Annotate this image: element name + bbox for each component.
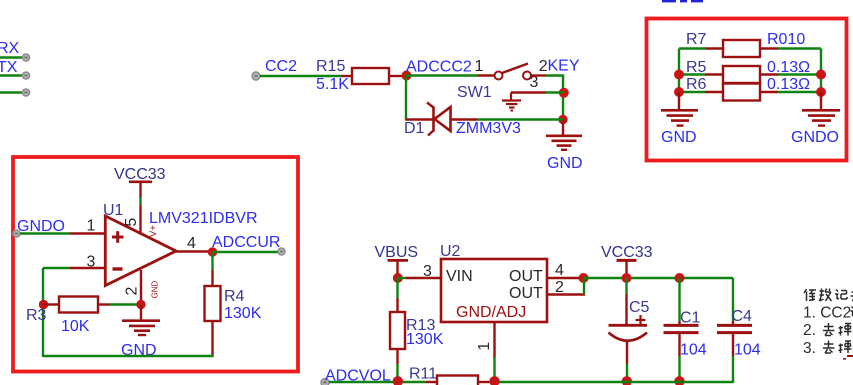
op-amp U1 pin 2 <box>140 270 142 305</box>
svg-text:GND: GND <box>547 155 583 172</box>
svg-text:R010: R010 <box>767 31 805 48</box>
wire contact2 to KEY node <box>531 74 546 76</box>
junction ADCCUR <box>208 247 218 257</box>
junction C5 bottom <box>622 376 632 385</box>
capacitor C1 plates <box>664 324 699 327</box>
resistor R13 <box>396 278 398 298</box>
svg-text:R6: R6 <box>686 76 707 93</box>
pin third <box>22 89 29 96</box>
junction R13 bottom <box>393 376 403 385</box>
wire KEY node down <box>562 76 564 121</box>
wire CC2 to R15 <box>260 75 341 77</box>
resistor R15 <box>341 75 352 77</box>
wire VCC33 to U1 <box>139 197 141 205</box>
junction pin3 node <box>559 88 569 98</box>
wire bottom loop <box>43 355 213 357</box>
resistor R11 <box>426 381 437 383</box>
svg-text:1: 1 <box>475 58 484 75</box>
svg-text:GNDO: GNDO <box>791 129 839 146</box>
svg-text:130K: 130K <box>406 331 444 348</box>
wire third <box>0 91 23 93</box>
svg-text:104: 104 <box>734 342 761 359</box>
junction C1 bottom <box>674 376 684 385</box>
capacitor C5 lead top <box>625 278 627 294</box>
junction pin2 <box>136 300 145 309</box>
svg-text:TX: TX <box>0 59 18 76</box>
ground GND <box>546 135 582 138</box>
svg-text:KEY: KEY <box>548 58 580 75</box>
svg-text:GND: GND <box>661 129 697 146</box>
wire VBUS to VIN <box>398 277 407 279</box>
junction zener node <box>558 115 567 124</box>
svg-text:C4: C4 <box>732 308 753 325</box>
op-amp minus sign <box>113 267 123 270</box>
capacitor C4 plates <box>717 324 752 327</box>
note line3 char 去 <box>823 323 835 336</box>
svg-text:0.13Ω: 0.13Ω <box>767 76 810 93</box>
svg-text:2: 2 <box>124 287 141 296</box>
svg-text:VIN: VIN <box>446 268 473 285</box>
wire C4 branch top <box>732 278 734 321</box>
svg-text:R11: R11 <box>409 366 437 383</box>
svg-text:D1: D1 <box>404 120 425 137</box>
wire C4 branch bottom <box>732 356 734 383</box>
svg-text:2: 2 <box>539 58 548 75</box>
pin GNDO <box>13 230 20 237</box>
svg-text:5: 5 <box>123 218 140 227</box>
resistor R4 <box>205 286 221 321</box>
junction VBUS <box>393 273 403 283</box>
wire ADCCC2 down to D1 <box>405 76 407 121</box>
capacitor C1 lead bottom <box>678 333 680 356</box>
capacitor C5 top plate <box>609 324 648 327</box>
note line2 char clipped <box>851 307 853 317</box>
note line1 char clipped <box>851 289 853 302</box>
note line1 char 记 <box>835 290 847 300</box>
ground GND <box>140 305 142 320</box>
wire OUT2 up <box>583 278 585 295</box>
wire OUT2 <box>547 293 585 295</box>
pin RX <box>22 54 29 61</box>
svg-text:5.1K: 5.1K <box>316 76 349 93</box>
junction right R6 <box>816 87 826 97</box>
junction OUT <box>579 273 589 283</box>
junction R3 left <box>39 300 48 309</box>
svg-text:130K: 130K <box>224 305 262 322</box>
svg-text:2.: 2. <box>803 322 816 339</box>
capacitor C4 lead top <box>732 321 734 325</box>
note line1 char 改 <box>820 289 832 302</box>
op-amp U1 pin 5 <box>139 205 141 234</box>
wire OUT4 <box>547 277 582 279</box>
pin ADCVOL <box>321 379 329 385</box>
svg-text:OUT: OUT <box>509 285 543 302</box>
wire junction to SW1 <box>406 74 478 76</box>
capacitor C5 curved plate <box>609 333 648 341</box>
wire RX <box>0 56 23 58</box>
svg-text:SW1: SW1 <box>457 84 492 101</box>
svg-text:RX: RX <box>0 40 20 57</box>
wire left bus <box>678 49 680 94</box>
regulator U2 pin 1 <box>493 322 495 357</box>
pin ADCCUR <box>278 248 285 255</box>
svg-text:U2: U2 <box>440 243 461 260</box>
svg-text:VCC33: VCC33 <box>601 244 653 261</box>
svg-text:LMV321IDBVR: LMV321IDBVR <box>149 210 258 227</box>
diode D1 zener bar <box>432 107 435 132</box>
wire left vertical <box>42 268 44 357</box>
svg-text:ADCCUR: ADCCUR <box>212 234 280 251</box>
note line4 char 去 <box>823 341 835 354</box>
wire bottom rail left <box>329 381 426 383</box>
ground GND left <box>678 92 680 109</box>
red highlight box left <box>13 157 298 372</box>
junction U2 pin1 bottom <box>489 376 499 385</box>
svg-text:V+: V+ <box>148 225 159 237</box>
wire TX <box>0 74 23 76</box>
svg-text:104: 104 <box>680 342 707 359</box>
junction left R5 <box>674 70 684 80</box>
wire switch pin 3 <box>511 91 546 93</box>
svg-text:1: 1 <box>476 342 493 351</box>
svg-text:4: 4 <box>555 262 564 279</box>
switch SW1 contact 2 <box>523 72 531 80</box>
note line3 char 掉 <box>839 324 852 336</box>
regulator U2 body <box>441 259 547 322</box>
svg-text:C5: C5 <box>629 299 650 316</box>
note line1 char 修 <box>804 289 816 301</box>
wire D1 left <box>406 118 433 120</box>
svg-text:R7: R7 <box>686 31 707 48</box>
svg-text:R15: R15 <box>316 58 345 75</box>
wire D1 right <box>450 118 477 120</box>
capacitor C1 lead top <box>678 278 680 321</box>
capacitor C5 lead bottom <box>626 341 628 365</box>
wire bottom rail right <box>489 381 733 383</box>
junction left R6 <box>674 87 684 97</box>
resistor R7 <box>679 47 705 49</box>
wire top rail <box>584 277 733 279</box>
svg-text:1: 1 <box>87 218 96 235</box>
svg-text:VBUS: VBUS <box>375 244 419 261</box>
op-amp plus sign <box>112 236 124 239</box>
svg-text:4: 4 <box>187 235 196 252</box>
svg-text:3.: 3. <box>803 340 816 357</box>
svg-text:ADCCC2: ADCCC2 <box>406 59 472 76</box>
svg-text:GND: GND <box>151 281 160 299</box>
wire ADCCUR <box>213 251 278 253</box>
wire pin3 <box>43 267 70 269</box>
capacitor C4 lead bottom <box>732 333 734 356</box>
capacitor C5 plus <box>636 319 646 321</box>
svg-text:R3: R3 <box>26 307 47 324</box>
pin TX <box>22 72 29 79</box>
ground small at SW1 pin3 <box>510 93 512 100</box>
wire right bus <box>820 49 822 94</box>
red highlight box right <box>647 19 847 161</box>
switch SW1 contact 1 <box>495 72 503 80</box>
svg-text:GND/ADJ: GND/ADJ <box>456 304 526 321</box>
junction ADCCC2 <box>402 71 412 81</box>
svg-text:10K: 10K <box>61 318 90 335</box>
svg-text:1. CC2: 1. CC2 <box>803 305 851 322</box>
junction right R5 <box>816 70 826 80</box>
pin CC2 <box>252 72 260 80</box>
switch SW1 lever <box>502 64 528 74</box>
wire GNDO to pin1 <box>20 232 70 234</box>
clipped red text bottom right <box>847 355 853 357</box>
op-amp U1 pin 4 output <box>176 250 209 252</box>
svg-text:VCC33: VCC33 <box>114 166 166 183</box>
op-amp U1 triangle <box>105 216 176 286</box>
svg-text:CC2: CC2 <box>265 58 297 75</box>
junction C1 top <box>675 273 685 283</box>
wire to GND <box>562 120 564 136</box>
svg-text:ZMM3V3: ZMM3V3 <box>456 120 521 137</box>
resistor R5 <box>679 73 705 75</box>
svg-text:OUT: OUT <box>509 268 543 285</box>
svg-text:R4: R4 <box>224 288 245 305</box>
note line4 char 掉 <box>839 341 852 353</box>
diode D1 triangle <box>435 107 451 131</box>
clipped blue text top <box>662 0 676 2</box>
ground GNDO right <box>820 92 822 109</box>
junction VCC33 <box>622 273 632 283</box>
resistor R3 <box>44 303 60 305</box>
resistor R6 <box>679 91 705 93</box>
wire junction down to R4 <box>211 252 213 270</box>
